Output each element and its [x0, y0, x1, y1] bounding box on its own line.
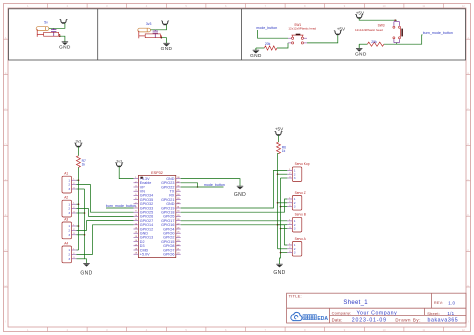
resistor R? 20k — [367, 40, 384, 46]
svg-text:A4: A4 — [64, 241, 68, 245]
switch SW1 — [288, 34, 307, 44]
wire — [181, 186, 224, 188]
svg-text:bakava365: bakava365 — [428, 317, 459, 323]
power +5V — [355, 10, 365, 18]
wire — [278, 173, 288, 175]
svg-text:burn_mode_button: burn_mode_button — [423, 31, 453, 35]
svg-text:ESP32: ESP32 — [151, 171, 163, 175]
junction — [84, 212, 86, 214]
svg-text:2: 2 — [68, 207, 70, 211]
ground (box2) — [161, 43, 173, 52]
wire (box1) — [49, 23, 65, 28]
svg-text:Company:: Company: — [332, 310, 352, 315]
svg-text:REV:: REV: — [434, 301, 443, 305]
wire — [77, 212, 85, 214]
net label mode_button — [204, 183, 225, 187]
resistor R? 20k — [264, 42, 277, 50]
wire input (box1) — [37, 29, 43, 37]
svg-text:Drawn By:: Drawn By: — [395, 317, 421, 322]
svg-text:Servo Z: Servo Z — [295, 191, 306, 195]
svg-text:SW3: SW3 — [378, 23, 385, 27]
connector Servo A — [287, 242, 302, 257]
svg-text:Date:: Date: — [332, 317, 343, 322]
wire — [77, 188, 85, 190]
wire — [278, 135, 280, 142]
fuse F? (box1) — [36, 27, 49, 31]
title block REV — [434, 300, 456, 305]
junction — [280, 228, 282, 230]
wire gnd rail — [280, 178, 281, 264]
junction — [277, 224, 279, 226]
wire — [258, 30, 289, 38]
svg-text:B: B — [467, 72, 469, 76]
switch SW1 label — [288, 23, 316, 31]
svg-text:GND: GND — [59, 45, 71, 51]
wire — [281, 206, 288, 208]
junction — [78, 179, 80, 181]
connector Servo Z label — [295, 191, 306, 195]
logo EasyEDA — [291, 312, 328, 322]
svg-text:Servo B: Servo B — [295, 213, 306, 217]
wire to gnd (box1) — [60, 36, 65, 42]
wire A2 signal — [77, 209, 134, 217]
svg-text:G: G — [5, 249, 7, 253]
svg-text:3: 3 — [294, 205, 296, 209]
junction — [394, 19, 396, 21]
wire A3 signal — [77, 221, 134, 231]
resistor R7 1k — [76, 156, 86, 168]
connector Servo Z — [287, 196, 302, 211]
svg-text:1k: 1k — [82, 163, 86, 167]
svg-text:2: 2 — [68, 229, 70, 233]
junction — [84, 234, 86, 236]
component body (box1) — [44, 32, 59, 36]
svg-text:Sheet:: Sheet: — [427, 311, 440, 316]
svg-text:Servo Kop: Servo Kop — [295, 162, 310, 166]
wire servo a signal — [181, 225, 288, 245]
wire — [359, 18, 397, 20]
ground (box1) — [59, 42, 71, 51]
wire — [256, 47, 265, 49]
wire — [278, 202, 288, 204]
strip divider 1 — [97, 9, 99, 60]
wire servo kop signal — [181, 170, 288, 208]
svg-text:burn_mode_button: burn_mode_button — [106, 204, 136, 208]
connector Servo B — [287, 217, 302, 232]
wire — [281, 252, 288, 254]
svg-text:3: 3 — [68, 187, 70, 191]
wire — [77, 249, 79, 251]
junction — [277, 173, 279, 175]
wire — [396, 43, 398, 45]
wire — [77, 203, 79, 205]
capacitor C? (box2) — [153, 30, 158, 38]
junction — [78, 203, 80, 205]
svg-text:2023-01-09: 2023-01-09 — [352, 317, 387, 323]
wire — [281, 177, 288, 179]
ground — [80, 263, 92, 276]
power +5V — [275, 126, 284, 135]
svg-text:A2: A2 — [64, 196, 68, 200]
connector A1 label — [64, 172, 68, 176]
wire gnd — [181, 179, 240, 187]
svg-text:3: 3 — [68, 211, 70, 215]
resistor R6 1k — [277, 142, 287, 154]
svg-text:B: B — [5, 72, 7, 76]
svg-text:+5V: +5V — [356, 10, 365, 15]
wire (box2) — [151, 25, 167, 30]
wire — [77, 225, 79, 227]
svg-text:GND: GND — [80, 270, 92, 276]
svg-text:GND: GND — [250, 53, 262, 59]
power flag 5v (box1) — [60, 19, 68, 23]
wire to gnd (box2) — [161, 38, 166, 44]
power flag 3v3 (box2) — [161, 21, 169, 25]
svg-text:GND: GND — [273, 270, 285, 276]
svg-text:3v3: 3v3 — [146, 22, 152, 26]
svg-text:E: E — [467, 178, 469, 182]
ground — [273, 264, 285, 276]
svg-text:GND: GND — [161, 46, 173, 52]
connector A2 — [62, 200, 77, 217]
svg-text:1: 1 — [68, 202, 70, 206]
title block grid — [287, 293, 466, 323]
svg-text:C: C — [5, 107, 7, 111]
svg-text:Servo A: Servo A — [295, 237, 307, 241]
wire — [307, 35, 338, 43]
ic U1 pin1 mark — [140, 177, 143, 179]
svg-text:G: G — [467, 249, 469, 253]
connector A1 — [62, 176, 77, 193]
svg-text:GPIO6: GPIO6 — [163, 253, 174, 257]
wire — [77, 147, 79, 156]
capacitor C? (box1) — [51, 28, 56, 36]
svg-text:3v3: 3v3 — [116, 159, 122, 163]
wire — [278, 224, 288, 226]
wire — [77, 234, 85, 236]
wire — [278, 248, 288, 250]
title block TITLE — [289, 294, 302, 299]
svg-text:A: A — [467, 36, 469, 40]
svg-text:H: H — [467, 284, 469, 288]
ic U1 pins — [134, 177, 181, 257]
wire A4 signal — [77, 225, 134, 255]
top strip box — [9, 9, 466, 60]
svg-text:A1: A1 — [64, 172, 68, 176]
wire — [77, 179, 79, 181]
ground — [355, 44, 367, 57]
net label 5v (box1) — [44, 20, 48, 24]
svg-text:EDA: EDA — [317, 316, 328, 322]
junction (box1) — [59, 35, 61, 37]
svg-text:20k: 20k — [371, 40, 377, 44]
wire A1 signal — [77, 185, 134, 213]
svg-text:3: 3 — [68, 257, 70, 261]
connector A2 label — [64, 196, 68, 200]
svg-text:Sheet_1: Sheet_1 — [343, 300, 368, 306]
wire input (box2) — [139, 31, 145, 39]
junction — [280, 252, 282, 254]
wire — [277, 43, 288, 48]
net label burn_mode_button — [423, 31, 453, 35]
wire — [384, 35, 423, 44]
svg-text:TITLE:: TITLE: — [289, 294, 302, 299]
net label 3v3 (box2) — [146, 22, 152, 26]
title block Sheet — [427, 311, 454, 316]
title block sheet name — [343, 300, 368, 306]
svg-text:1: 1 — [68, 178, 70, 182]
wire — [119, 167, 133, 179]
svg-text:1k: 1k — [282, 149, 286, 153]
component body (box2) — [145, 34, 160, 38]
svg-text:1/1: 1/1 — [447, 311, 454, 316]
svg-text:3: 3 — [294, 227, 296, 231]
net label burn_mode_button — [106, 204, 136, 208]
wire (box1) — [59, 34, 60, 36]
svg-text:+5V: +5V — [275, 126, 284, 131]
connector Servo B label — [295, 213, 306, 217]
wire — [359, 43, 367, 45]
wire servo z signal — [181, 199, 288, 212]
svg-text:20k: 20k — [265, 42, 271, 46]
junction (box2) — [161, 37, 163, 39]
title block Date — [332, 317, 459, 323]
switch SW3 — [393, 22, 403, 43]
junction — [78, 225, 80, 227]
title block Company — [332, 310, 398, 316]
svg-text:H: H — [5, 284, 7, 288]
ic U1 ESP32 label — [151, 171, 163, 175]
power 3v3 — [75, 139, 83, 146]
net label mode_button — [256, 26, 277, 30]
wire — [106, 207, 134, 209]
connector Servo Kop — [287, 167, 302, 182]
ground — [234, 186, 246, 198]
svg-text:mode_button: mode_button — [256, 26, 277, 30]
junction — [197, 186, 199, 188]
junction — [277, 202, 279, 204]
svg-text:D: D — [5, 142, 7, 146]
wire (box2) — [160, 36, 161, 38]
svg-text:Your Company: Your Company — [357, 310, 398, 316]
ic U1 body — [138, 175, 175, 257]
junction — [280, 206, 282, 208]
connector A4 — [62, 246, 77, 263]
svg-text:3: 3 — [294, 176, 296, 180]
connector A4 label — [64, 241, 68, 245]
connector A3 label — [64, 217, 68, 221]
power +5V — [334, 26, 346, 34]
svg-text:2: 2 — [68, 253, 70, 257]
svg-text:1: 1 — [68, 248, 70, 252]
fuse F? (box2) — [138, 28, 151, 32]
wire — [181, 183, 198, 187]
svg-text:C: C — [467, 107, 469, 111]
svg-text:A: A — [5, 36, 7, 40]
connector Servo Kop label — [295, 162, 310, 166]
ground — [250, 48, 262, 59]
svg-text:GND: GND — [355, 51, 367, 57]
svg-text:GND: GND — [234, 192, 246, 198]
wire — [281, 228, 288, 230]
wire +5V rail — [277, 153, 279, 249]
wire servo b signal — [181, 220, 288, 222]
connector Servo A label — [295, 237, 307, 241]
wire — [77, 258, 85, 260]
svg-text:1.0: 1.0 — [448, 300, 455, 305]
switch SW3 label — [355, 23, 385, 32]
wire gnd rail — [85, 189, 87, 263]
svg-text:E: E — [5, 178, 7, 182]
svg-text:3v3: 3v3 — [76, 139, 82, 143]
svg-text:D: D — [467, 142, 469, 146]
connector A3 — [62, 222, 77, 239]
wire 3v3 rail — [78, 167, 80, 250]
svg-text:12x12x9Plastic head: 12x12x9Plastic head — [355, 28, 383, 32]
svg-text:5v: 5v — [44, 20, 48, 24]
svg-text:mode_button: mode_button — [204, 183, 225, 187]
svg-text:A3: A3 — [64, 217, 68, 221]
svg-text:3: 3 — [294, 251, 296, 255]
svg-text:2: 2 — [68, 183, 70, 187]
svg-text:+5.0V: +5.0V — [140, 253, 150, 257]
strip divider 2 — [241, 9, 243, 60]
svg-text:12x12x9Plastic head: 12x12x9Plastic head — [288, 26, 316, 30]
power 3v3 — [115, 159, 123, 166]
svg-text:1: 1 — [68, 224, 70, 228]
svg-text:3: 3 — [68, 233, 70, 237]
